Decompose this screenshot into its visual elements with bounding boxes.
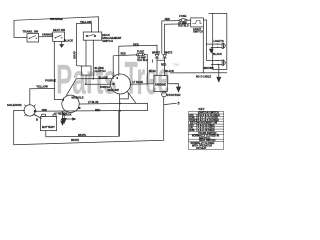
- ground battery: [62, 118, 66, 123]
- wire light feed upper: [162, 21, 180, 54]
- svg-text:B: B: [36, 118, 38, 122]
- wire lights box ground: [218, 65, 220, 78]
- wire yellow branch to solenoid: [30, 89, 55, 106]
- blade clutch box: [82, 66, 92, 75]
- ground engine: [177, 87, 181, 92]
- wire light switch to lamps: [203, 20, 206, 60]
- label BLACK right: [165, 70, 174, 73]
- key table text: [189, 112, 220, 150]
- svg-text:SEAT SW: SEAT SW: [53, 28, 66, 32]
- wire magneto to engine lt blue: [131, 83, 154, 85]
- label WHITE: [71, 139, 79, 142]
- battery box: [41, 114, 57, 130]
- label STARTER: [167, 93, 182, 97]
- svg-text:5: 5: [178, 101, 180, 105]
- key table title: [199, 107, 205, 111]
- wire engine right ground: [167, 84, 178, 87]
- svg-text:RED: RED: [161, 63, 166, 66]
- wire module ground drop: [62, 112, 64, 121]
- label YELLOW: [36, 85, 48, 89]
- engine box: [154, 76, 167, 92]
- wire black line1 to magneto: [76, 78, 112, 80]
- label FUSE: [137, 49, 144, 53]
- module circle: [62, 95, 80, 112]
- wire diodes to engine left: [156, 60, 158, 75]
- label 5: [178, 101, 180, 105]
- node junction dots: [119, 102, 121, 104]
- svg-text:BATTERY: BATTERY: [42, 125, 55, 129]
- wire yellow top: [77, 23, 92, 32]
- svg-text:LIGHTS: LIGHTS: [214, 39, 224, 43]
- fuse F2: [136, 53, 144, 56]
- wire lamp2 bottom: [211, 64, 222, 66]
- lights enclosure box: [170, 13, 227, 73]
- wire lamp2 top: [207, 59, 223, 61]
- label B: [36, 118, 38, 122]
- label SEAT SW: [53, 28, 66, 32]
- label BLACK: [99, 76, 108, 79]
- svg-text:TRANS. SW: TRANS. SW: [23, 30, 39, 34]
- label PURPLE: [45, 79, 56, 83]
- svg-text:SWITCH: SWITCH: [193, 29, 204, 33]
- deck engagement switch box: [83, 32, 101, 40]
- svg-text:S: S: [117, 77, 119, 80]
- label SOLENOID: [7, 103, 22, 107]
- label S M terminals: [113, 77, 119, 86]
- wire magneto bottom drop: [119, 94, 121, 136]
- svg-text:BROWN: BROWN: [204, 67, 214, 70]
- label RED light: [165, 18, 170, 21]
- wire lamp1 bottom: [211, 46, 222, 48]
- ground seat: [60, 44, 64, 47]
- wire fuse1 to light switch: [187, 19, 191, 21]
- label RED batt: [42, 109, 47, 112]
- label FUSE: [179, 14, 186, 18]
- wire diode bus: [157, 59, 165, 61]
- label DECK ENGAGEMENT SWITCH: [102, 33, 122, 43]
- svg-text:CLUTCH: CLUTCH: [95, 69, 106, 73]
- svg-text:RED: RED: [121, 52, 126, 55]
- wire line2 to magneto: [86, 83, 111, 85]
- key table: [188, 111, 223, 149]
- svg-text:WHITE: WHITE: [71, 139, 79, 142]
- wire red long to solenoid: [35, 109, 147, 112]
- wire solenoid right red: [34, 110, 36, 112]
- svg-text:LT BLUE: LT BLUE: [133, 81, 144, 84]
- wire magneto diagonal: [127, 91, 136, 103]
- label MODULE: [72, 95, 84, 99]
- label PURPLE: [100, 86, 110, 89]
- label BLACK: [63, 114, 72, 117]
- label MAG SW: [108, 88, 120, 92]
- label WHITE d1: [152, 52, 160, 55]
- svg-text:M: M: [113, 83, 115, 86]
- label RED: [133, 42, 139, 46]
- wire solenoid left down: [14, 110, 25, 144]
- label BLACK: [64, 38, 73, 42]
- wire module to U-turn: [79, 103, 147, 110]
- wire battery to ground: [55, 113, 65, 118]
- svg-text:STARTER: STARTER: [167, 93, 182, 97]
- svg-text:RED: RED: [165, 18, 170, 21]
- label 15 AMP: [178, 22, 189, 28]
- svg-text:WHITE: WHITE: [152, 52, 160, 55]
- svg-text:SLO BLO: SLO BLO: [137, 59, 148, 62]
- wire trans to seat: [39, 36, 53, 38]
- wire fuse2 out: [144, 55, 147, 84]
- transmission switch box: [14, 34, 39, 43]
- label 4: [61, 117, 63, 121]
- label BATTERY: [42, 125, 55, 129]
- label cable note: [196, 76, 211, 79]
- svg-text:FUSE: FUSE: [137, 49, 144, 53]
- wire seat ground black: [61, 41, 63, 44]
- label BLACK lamp: [213, 53, 222, 56]
- wire purple seat to module: [54, 41, 63, 99]
- ground module: [61, 121, 65, 125]
- diode D1: [155, 55, 159, 61]
- wire orange deck to red top: [119, 45, 157, 74]
- node lamp2 dots: [217, 60, 218, 65]
- diode D2: [163, 55, 167, 61]
- svg-text:ORANGE: ORANGE: [50, 17, 63, 21]
- label 15 AMP: [137, 57, 148, 62]
- svg-text:BLACK: BLACK: [64, 38, 73, 42]
- wire gray to blade clutch: [77, 24, 82, 67]
- svg-text:RED: RED: [42, 109, 47, 112]
- svg-text:RED: RED: [133, 42, 139, 46]
- label WHITE d2: [164, 52, 172, 55]
- node blade junction: [85, 83, 87, 85]
- svg-text:GRAY: GRAY: [73, 51, 77, 59]
- svg-text:ORANGE: ORANGE: [42, 34, 53, 37]
- watermark: [56, 52, 179, 104]
- seat switch box: [53, 32, 65, 41]
- label ORANGE small: [42, 34, 53, 37]
- svg-text:LT BLUE: LT BLUE: [88, 101, 99, 104]
- label BLACK batt: [59, 113, 68, 116]
- svg-text:BLAC: BLAC: [149, 70, 156, 73]
- label GRAY vertical: [73, 51, 77, 59]
- svg-text:SOLENOID: SOLENOID: [7, 103, 22, 107]
- wire lamp1 top: [207, 43, 223, 45]
- wire white A battery to magneto: [46, 111, 119, 137]
- wire light feed lower: [165, 24, 191, 54]
- svg-text:SWITCH: SWITCH: [102, 39, 113, 43]
- solenoid circle: [24, 105, 35, 116]
- callout 4 arrow: [64, 118, 76, 120]
- wire magneto small loop: [120, 93, 129, 99]
- label WHITE: [78, 134, 86, 137]
- label YELLOW: [80, 20, 92, 24]
- svg-text:NO 5 CABLE: NO 5 CABLE: [196, 76, 211, 79]
- label TRANS. SW: [23, 30, 39, 34]
- svg-text:MODULE: MODULE: [72, 95, 84, 99]
- node lamp1 dots: [206, 43, 218, 48]
- label ENGINE: [155, 82, 166, 86]
- node purple/yellow junction: [54, 88, 55, 89]
- svg-text:FUSE: FUSE: [179, 14, 186, 18]
- svg-text:WHITE: WHITE: [164, 52, 172, 55]
- label LT BLUE: [88, 101, 99, 104]
- svg-text:BLACK: BLACK: [213, 53, 222, 56]
- wire blade clutch bottom to line2: [85, 75, 87, 84]
- svg-text:RED: RED: [95, 109, 100, 112]
- wire white long bottom: [14, 97, 164, 145]
- svg-text:WHITE: WHITE: [78, 134, 86, 137]
- ground lights: [217, 77, 221, 82]
- svg-text:SLO BLO: SLO BLO: [178, 25, 189, 28]
- wire fuse2 feed: [113, 55, 136, 77]
- callout 5 line: [164, 103, 176, 104]
- svg-text:ON SEAT: ON SEAT: [196, 147, 207, 150]
- label RED: [95, 109, 100, 112]
- svg-text:RUN: RUN: [189, 129, 194, 132]
- label ORANGE: [50, 17, 63, 21]
- wire module kill diagonal: [67, 79, 77, 96]
- svg-text:PURPLE: PURPLE: [45, 79, 56, 83]
- label LT BLUE: [133, 81, 144, 84]
- wire diodes to engine right: [164, 60, 166, 75]
- magneto circle: [111, 73, 131, 94]
- label BLACK left: [149, 70, 156, 73]
- starter circle: [162, 92, 167, 97]
- lamp 1: [222, 43, 225, 48]
- wire orange top: [14, 17, 99, 38]
- label RED bus: [161, 63, 166, 66]
- svg-text:BLACK: BLACK: [99, 76, 108, 79]
- label BROWN: [204, 67, 214, 70]
- svg-text:ENGINE: ENGINE: [155, 82, 166, 86]
- node key terminal tick: [152, 60, 154, 63]
- svg-text:YELLOW: YELLOW: [36, 85, 48, 89]
- svg-text:KEY: KEY: [199, 107, 205, 111]
- ground lamp small: [210, 47, 213, 52]
- svg-text:TM: TM: [173, 62, 179, 67]
- wire deck box left drop: [85, 40, 87, 66]
- label BLADE CLUTCH: [95, 66, 106, 73]
- svg-text:YELLOW: YELLOW: [80, 20, 92, 24]
- label LIGHTS: [214, 39, 224, 43]
- label RED: [121, 52, 126, 55]
- wire deck box right drop: [92, 40, 94, 78]
- wire solenoid diagonal to battery: [34, 114, 42, 118]
- light switch box: [191, 18, 204, 27]
- label LIGHT SWITCH: [193, 27, 204, 34]
- wire light switch bottom drop: [202, 27, 204, 73]
- fuse F1: [179, 19, 187, 22]
- lamp 2: [222, 60, 225, 65]
